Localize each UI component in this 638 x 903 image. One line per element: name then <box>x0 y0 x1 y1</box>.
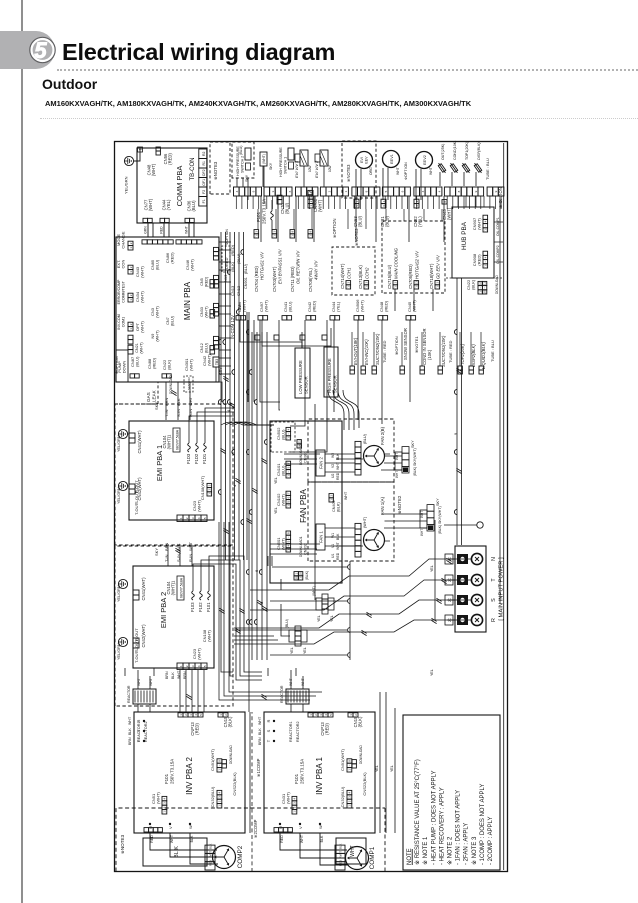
svg-text:4: 4 <box>287 428 291 430</box>
svg-text:※1COMP: ※1COMP <box>256 758 261 777</box>
bump crossings on bus <box>218 399 221 404</box>
wires to main input power R S T N <box>234 620 472 644</box>
connector CN87 (BLU) pump down <box>130 374 135 378</box>
svg-text:(RED): (RED) <box>170 252 175 264</box>
svg-text:R2: R2 <box>202 152 206 157</box>
svg-text:S-IN: S-IN <box>176 409 181 417</box>
svg-text:WHT: WHT <box>300 834 304 843</box>
svg-text:5: 5 <box>287 540 291 542</box>
wires coil feeds from MAIN PBA <box>394 289 396 311</box>
feeder emi2 to inv1 diag <box>209 556 262 672</box>
chapter number circle <box>0 0 120 120</box>
svg-text:4: 4 <box>218 791 222 793</box>
svg-text:TB3: TB3 <box>215 359 219 365</box>
svg-text:1: 1 <box>129 328 133 330</box>
svg-text:CN715(BLU): CN715(BLU) <box>387 264 392 289</box>
wires thermistors to strip <box>439 172 441 186</box>
wires HUB PBA to strip <box>457 196 459 207</box>
svg-text:BRN: BRN <box>128 737 132 745</box>
connector CN41 (BLU) <box>282 316 287 320</box>
YEL wire right of inv1 <box>434 520 436 620</box>
svg-text:9: 9 <box>309 231 313 233</box>
svg-text:YEL: YEL <box>303 647 307 654</box>
svg-text:FAN 2: FAN 2 <box>319 457 324 469</box>
svg-text:(WHT): (WHT) <box>360 300 365 312</box>
svg-text:3: 3 <box>191 517 195 519</box>
svg-text:FAN 1(A): FAN 1(A) <box>380 496 385 515</box>
fan2 pin strip <box>355 469 361 475</box>
svg-text:SNOW SENSOR: SNOW SENSOR <box>403 328 408 360</box>
svg-text:RED: RED <box>160 226 164 234</box>
svg-text:OF1: OF1 <box>202 179 206 186</box>
svg-text:EMI PBA 2: EMI PBA 2 <box>159 592 168 628</box>
svg-text:MAIN COOLING: MAIN COOLING <box>394 247 399 279</box>
wires cn23 cells to inv2 pins <box>180 670 204 712</box>
svg-text:1: 1 <box>179 714 183 716</box>
high-pressure switch 2 dashed box <box>232 142 254 178</box>
wire bottom edge long <box>503 143 505 870</box>
svg-text:(BLU): (BLU) <box>155 259 160 270</box>
svg-text:CN32(BLU): CN32(BLU) <box>210 786 215 807</box>
svg-text:EEV2: EEV2 <box>423 155 427 165</box>
svg-text:(WHT)1: (WHT)1 <box>167 434 172 449</box>
dashed box fan1 zone <box>308 482 394 561</box>
svg-text:1: 1 <box>344 190 348 192</box>
svg-text:CN21: CN21 <box>135 343 139 353</box>
svg-text:BRN: BRN <box>165 671 169 679</box>
svg-text:(BLK): (BLK) <box>438 525 442 534</box>
svg-text:2: 2 <box>436 282 440 284</box>
svg-text:WHT: WHT <box>170 834 174 843</box>
svg-text:INV PBA 2: INV PBA 2 <box>185 757 194 795</box>
dashed region NOTE3 compressors <box>116 808 385 872</box>
svg-text:(WHT): (WHT) <box>264 300 269 312</box>
svg-text:SWITCH 2: SWITCH 2 <box>241 156 245 173</box>
terminal T <box>457 575 468 585</box>
thermistor DISP(BLK) <box>473 162 483 174</box>
svg-text:6: 6 <box>254 569 259 572</box>
feeder wires through lower channel <box>272 566 348 568</box>
PUMP DOWN annex box <box>116 350 128 382</box>
svg-text:※ RESISTANCE VALUE AT 25°C(77°: ※ RESISTANCE VALUE AT 25°C(77°F) <box>414 759 421 865</box>
svg-text:YEL/GRN: YEL/GRN <box>124 176 129 194</box>
svg-text:1: 1 <box>415 286 419 288</box>
svg-text:1: 1 <box>349 714 353 716</box>
svg-text:CN108(WHT): CN108(WHT) <box>200 475 205 500</box>
pin header CN36 <box>185 218 190 222</box>
svg-text:CCH1: CCH1 <box>347 268 352 279</box>
svg-text:SKY(WHT): SKY(WHT) <box>438 506 442 524</box>
motor COMP1 <box>346 847 369 870</box>
fan2 feed wires <box>325 454 355 472</box>
thermistor EVI-OUT(18K) <box>350 370 354 374</box>
svg-text:SENSOR: SENSOR <box>303 376 308 394</box>
coil CN708 (YEL) 4WAY <box>308 234 313 238</box>
pin 1 box <box>138 147 143 152</box>
svg-text:FAN 2(B): FAN 2(B) <box>380 426 385 445</box>
svg-text:3: 3 <box>218 796 222 798</box>
svg-text:9: 9 <box>252 190 256 192</box>
svg-text:SKY: SKY <box>411 440 415 448</box>
dashed option box gas leak <box>115 403 158 405</box>
svg-text:F101: F101 <box>294 773 299 784</box>
svg-text:~: ~ <box>478 287 482 289</box>
terminal N <box>457 554 468 564</box>
svg-text:4: 4 <box>293 797 297 799</box>
svg-text:2: 2 <box>129 294 133 296</box>
svg-text:5: 5 <box>384 190 388 192</box>
svg-text:(WHT): (WHT) <box>140 265 145 277</box>
pin boxes beside CN96 column <box>255 335 260 340</box>
connector CN48 (RED) <box>378 316 383 320</box>
svg-text:DOWNLOAD: DOWNLOAD <box>495 275 499 294</box>
svg-text:3: 3 <box>163 802 167 804</box>
svg-text:CN301: CN301 <box>303 451 307 463</box>
fan1 plug block <box>427 524 434 531</box>
wires HUB PBA to bottom rail <box>494 261 503 263</box>
svg-text:(RED): (RED) <box>312 300 317 312</box>
svg-text:(BLU): (BLU) <box>191 200 196 212</box>
thermistor COND IN SENSOR <box>420 370 424 374</box>
svg-text:(WHT): (WHT) <box>207 629 212 641</box>
svg-text:4: 4 <box>348 791 352 793</box>
svg-text:(WHT): (WHT) <box>262 154 266 164</box>
pin cells main interior <box>210 284 215 288</box>
svg-text:RED: RED <box>280 835 284 843</box>
svg-text:(WHT): (WHT) <box>190 258 195 270</box>
svg-text:(WHT): (WHT) <box>207 354 212 366</box>
svg-text:(BLK): (BLK) <box>228 716 233 727</box>
svg-text:TOP2(20K): TOP2(20K) <box>460 343 465 365</box>
svg-text:1: 1 <box>394 286 398 288</box>
svg-text:BRN: BRN <box>164 397 169 406</box>
svg-text:2: 2 <box>348 800 352 802</box>
vertical feeders EMI1 to MAIN <box>165 382 167 420</box>
svg-text:1: 1 <box>287 505 291 507</box>
svg-text:YEL: YEL <box>274 477 278 484</box>
svg-text:HIGH PRESSURE: HIGH PRESSURE <box>327 358 332 393</box>
svg-text:(BLK): (BLK) <box>413 467 417 476</box>
svg-text:CN901: CN901 <box>244 277 248 289</box>
label SNOW SENSOR <box>400 370 404 374</box>
svg-text:※NOTE3: ※NOTE3 <box>213 161 218 180</box>
inline connector YEL A <box>322 609 328 614</box>
fan2 feed box FAN 2 <box>316 450 325 476</box>
svg-text:2: 2 <box>185 517 189 519</box>
svg-text:CNS22(BLK): CNS22(BLK) <box>232 772 237 796</box>
wires inv2 to comp2 <box>150 833 218 864</box>
svg-text:YEL/GRN: YEL/GRN <box>117 435 121 452</box>
svg-text:4: 4 <box>197 665 201 667</box>
svg-text:~: ~ <box>483 287 487 289</box>
svg-text:WHT: WHT <box>188 396 193 406</box>
svg-text:COND(10K): COND(10K) <box>453 141 457 160</box>
svg-text:DOWN: DOWN <box>122 361 127 374</box>
svg-text:1: 1 <box>129 271 133 273</box>
thermistor OUT(25K) <box>437 162 447 174</box>
wires INV2 mid <box>249 712 251 833</box>
svg-text:DOWNLOAD: DOWNLOAD <box>229 745 233 764</box>
svg-text:(WHT): (WHT) <box>286 792 291 804</box>
svg-text:SKY: SKY <box>269 162 273 170</box>
page margin vertical line <box>21 0 23 903</box>
inline connector YEL B <box>295 641 301 646</box>
svg-text:(WHT): (WHT) <box>281 494 286 506</box>
svg-text:(BLU): (BLU) <box>170 315 174 326</box>
svg-text:CN711 (RED): CN711 (RED) <box>290 266 295 292</box>
op-amp U-MAIN PBA board box <box>116 237 219 382</box>
svg-text:※OPT ION: ※OPT ION <box>404 162 408 180</box>
drop wires strip to coil connectors <box>257 209 259 229</box>
note box <box>403 715 500 870</box>
svg-text:CON: CON <box>121 259 126 268</box>
wire switch2 <box>247 178 249 200</box>
svg-text:T-IN: T-IN <box>164 409 169 417</box>
svg-text:REACTOR: REACTOR <box>127 685 131 703</box>
svg-text:2: 2 <box>129 242 133 244</box>
svg-text:OF2: OF2 <box>202 169 206 176</box>
dashed DRED option box <box>222 246 230 272</box>
svg-text:7: 7 <box>287 492 291 494</box>
svg-text:YEL: YEL <box>390 765 394 772</box>
svg-text:YEL: YEL <box>317 615 321 622</box>
svg-text:10: 10 <box>299 572 303 576</box>
svg-text:(BLU): (BLU) <box>135 356 140 367</box>
bus wires lower channel <box>251 332 253 660</box>
svg-text:S: S <box>136 729 141 732</box>
svg-text:~: ~ <box>287 471 291 473</box>
bus wires MAIN PBA to fans and coils <box>220 232 222 560</box>
svg-text:10W: 10W <box>328 165 332 172</box>
svg-text:YEL: YEL <box>274 507 278 514</box>
svg-text:CN703(WHT): CN703(WHT) <box>272 266 277 292</box>
svg-text:3: 3 <box>191 665 195 667</box>
svg-text:(BLK): (BLK) <box>336 502 340 512</box>
svg-text:CN12: CN12 <box>236 285 241 296</box>
svg-text:WHT: WHT <box>429 167 433 175</box>
dashed box NOTE3 around EVI EEV <box>342 141 376 198</box>
pin header CN44 <box>160 218 165 222</box>
connector strip along right side <box>234 187 240 196</box>
svg-text:1: 1 <box>484 265 488 267</box>
svg-text:2: 2 <box>327 190 331 192</box>
svg-text:2: 2 <box>218 800 222 802</box>
pin row CN22 1-10 20-11 <box>478 290 482 294</box>
svg-text:2: 2 <box>224 714 228 716</box>
svg-text:LEAK: LEAK <box>152 389 157 402</box>
dotted rule under models <box>40 118 638 119</box>
svg-text:※NOTE3: ※NOTE3 <box>346 164 351 182</box>
svg-text:INV PBA 1: INV PBA 1 <box>315 757 324 795</box>
svg-text:SKY: SKY <box>436 498 440 506</box>
svg-text:2: 2 <box>255 231 259 233</box>
outer border of wiring diagram <box>115 142 508 872</box>
svg-text:1: 1 <box>287 475 291 477</box>
inv2 bottom edge pin row <box>144 828 149 832</box>
svg-text:4: 4 <box>287 545 291 547</box>
svg-text:V2: V2 <box>331 464 335 468</box>
svg-text:(10K): (10K) <box>427 349 432 360</box>
svg-text:20: 20 <box>294 576 298 580</box>
terminal blob WHT box comp1 <box>336 838 366 864</box>
svg-text:(BLU): (BLU) <box>285 202 290 214</box>
svg-text:1: 1 <box>348 769 352 771</box>
svg-text:1: 1 <box>355 200 359 202</box>
svg-text:4: 4 <box>163 797 167 799</box>
svg-text:TB-CON: TB-CON <box>190 158 196 181</box>
connector CN502 (BLU) dashed <box>271 422 295 452</box>
svg-text:(WHT): (WHT) <box>242 300 247 312</box>
wires INV1 right side YEL <box>380 692 395 833</box>
svg-text:BRN: BRN <box>258 737 262 745</box>
svg-text:CN708(YEL): CN708(YEL) <box>308 268 313 292</box>
wire bus down-left to EMI2/INV area <box>221 560 233 672</box>
svg-text:BLK: BLK <box>128 728 132 735</box>
comp2 inlet cells RED WHT BLK <box>205 862 215 870</box>
wire eev feeds <box>356 169 361 200</box>
wires cn23 cells to inv1 pins <box>219 522 322 700</box>
svg-text:10W: 10W <box>308 165 312 172</box>
svg-text:COMM PBA: COMM PBA <box>175 166 184 207</box>
svg-text:BLK: BLK <box>171 672 175 679</box>
svg-text:CNS22(BLK): CNS22(BLK) <box>362 772 367 796</box>
slash emi2-inv2 <box>186 696 191 699</box>
wires inv tops to emi bottoms <box>125 668 296 676</box>
slash inv feeders <box>235 630 240 633</box>
fan1 plug wires <box>382 514 427 528</box>
svg-text:OIL-COMP2: OIL-COMP2 <box>496 245 500 264</box>
svg-text:4: 4 <box>235 190 239 192</box>
downloads dashed separators <box>446 277 502 279</box>
subtitle Outdoor <box>42 76 97 92</box>
svg-text:1: 1 <box>329 499 333 501</box>
svg-text:BLK: BLK <box>336 533 340 540</box>
svg-text:5: 5 <box>203 517 207 519</box>
svg-text:~: ~ <box>348 764 352 766</box>
svg-text:SKY: SKY <box>154 402 159 410</box>
svg-text:R1: R1 <box>202 161 206 166</box>
svg-text:R-OUT: R-OUT <box>134 628 139 641</box>
svg-text:8: 8 <box>365 190 369 192</box>
svg-text:HOTGAS2 V/V: HOTGAS2 V/V <box>415 250 420 279</box>
svg-text:3: 3 <box>293 802 297 804</box>
terminal TB3 <box>213 357 219 367</box>
label SENSOR dashed <box>184 376 193 392</box>
svg-text:YEL: YEL <box>375 765 379 772</box>
svg-text:1: 1 <box>218 769 222 771</box>
svg-text:(WHT): (WHT) <box>477 217 482 229</box>
svg-text:SWITCH 1: SWITCH 1 <box>284 157 288 174</box>
svg-text:HUB PBA: HUB PBA <box>461 221 468 250</box>
svg-text:1: 1 <box>309 235 313 237</box>
svg-text:(RED): (RED) <box>195 723 200 735</box>
svg-text:- 2COMP : APPLY: - 2COMP : APPLY <box>488 817 494 865</box>
svg-text:(BLU): (BLU) <box>288 301 293 312</box>
svg-text:250V.T3.15A: 250V.T3.15A <box>170 759 175 784</box>
svg-text:CN718(WHT): CN718(WHT) <box>429 263 434 289</box>
connector CN44 (YEL) <box>330 316 335 320</box>
bumps lower channel <box>249 619 252 624</box>
terminal block MAIN INPUT POWER <box>455 546 486 632</box>
svg-text:~: ~ <box>484 261 488 263</box>
svg-text:- 1FAN : DOES NOT APPLY: - 1FAN : DOES NOT APPLY <box>456 790 462 865</box>
svg-text:4: 4 <box>438 190 442 192</box>
more coil area drops <box>385 209 387 221</box>
slash lower channel <box>257 602 262 605</box>
svg-text:RED: RED <box>336 552 340 560</box>
svg-text:- 2FAN : APPLY: - 2FAN : APPLY <box>464 823 470 865</box>
wires EVI valves to strip <box>304 166 324 187</box>
thermistor TOP2(20K) <box>458 370 462 374</box>
svg-text:TUBE : RED: TUBE : RED <box>382 340 387 363</box>
svg-text:9: 9 <box>218 760 222 762</box>
svg-text:(BLU): (BLU) <box>285 619 289 628</box>
svg-text:F1: F1 <box>202 199 206 203</box>
svg-text:CN91(WHT): CN91(WHT) <box>340 748 345 771</box>
svg-text:1: 1 <box>163 811 167 813</box>
svg-text:(BLU): (BLU) <box>244 263 248 274</box>
vertical feeders EMI2 to reactors <box>167 545 169 566</box>
svg-text:GAS: GAS <box>146 392 151 402</box>
feeder emi1 down <box>189 408 234 420</box>
svg-text:(WHT): (WHT) <box>197 499 202 511</box>
svg-text:3: 3 <box>208 484 212 486</box>
svg-text:1: 1 <box>436 286 440 288</box>
svg-text:COMP2: COMP2 <box>237 845 244 868</box>
svg-text:※NOTE1: ※NOTE1 <box>414 336 419 353</box>
svg-text:F101: F101 <box>206 602 211 612</box>
svg-text:1: 1 <box>484 229 488 231</box>
reactor box for INV PBA 2 <box>133 689 156 704</box>
svg-text:4WAY V/V: 4WAY V/V <box>313 259 318 280</box>
slash emi feeds <box>171 392 176 395</box>
svg-text:COM1: COM1 <box>122 317 126 327</box>
wires reactor inv1 <box>291 670 303 712</box>
svg-text:TUBE : BLU: TUBE : BLU <box>490 340 495 362</box>
motor EVI EEV <box>356 152 373 169</box>
svg-text:COMM/TEST: COMM/TEST <box>122 280 126 302</box>
svg-text:(WHT)1: (WHT)1 <box>171 580 176 595</box>
terminal row F1 F2 OF1 OF2 R1 R2 <box>199 197 207 207</box>
svg-text:(RED): (RED) <box>204 276 208 287</box>
chapter tab <box>0 31 55 69</box>
op-amp U-FAN PBA board box <box>270 421 342 583</box>
svg-text:FAN 1: FAN 1 <box>319 531 324 543</box>
svg-text:2: 2 <box>329 495 333 497</box>
svg-text:(RED): (RED) <box>477 254 482 266</box>
svg-text:YEL: YEL <box>430 565 434 572</box>
svg-text:TUBE : BLU: TUBE : BLU <box>485 158 490 180</box>
svg-text:(BLU): (BLU) <box>236 253 241 264</box>
svg-text:~: ~ <box>484 225 488 227</box>
svg-text:(WHT): (WHT) <box>318 199 323 212</box>
svg-text:CN12: CN12 <box>200 343 204 353</box>
svg-text:F1D1: F1D1 <box>202 453 207 464</box>
svg-text:YEL/GRN: YEL/GRN <box>117 487 121 504</box>
long equalizing wires lower <box>248 312 250 712</box>
label 680V boxed emi2 <box>177 576 184 600</box>
svg-text:(BLK): (BLK) <box>471 279 476 290</box>
svg-text:2: 2 <box>129 266 133 268</box>
connector SKY (WHT) mid <box>260 152 267 166</box>
wire high pressure sensor <box>330 328 332 347</box>
svg-text:BL K: BL K <box>174 846 180 858</box>
svg-text:9: 9 <box>474 190 478 192</box>
title <box>62 39 335 66</box>
svg-text:(WHT): (WHT) <box>156 792 161 804</box>
svg-text:1: 1 <box>219 714 223 716</box>
svg-text:ORG: ORG <box>369 167 373 175</box>
